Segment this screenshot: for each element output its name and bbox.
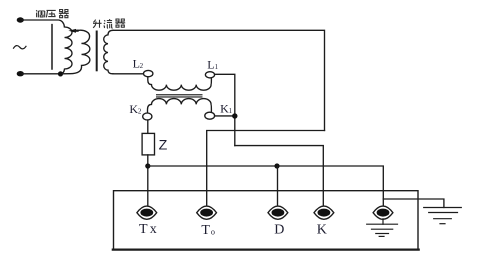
svg-text:Z: Z <box>159 138 168 154</box>
wire J4 down to D terminal <box>277 166 279 206</box>
wire L1 to right bus <box>215 74 235 145</box>
terminal E grounded <box>373 206 393 219</box>
transformer T2 booster secondary winding <box>104 30 113 74</box>
svg-text:D: D <box>274 223 284 238</box>
terminal K <box>314 206 334 219</box>
wire booster secondary bottom to L2 <box>113 73 143 75</box>
svg-text:1: 1 <box>215 63 219 71</box>
wire bottom input <box>22 73 61 75</box>
resistor Z <box>142 133 154 155</box>
terminal T0 <box>197 206 217 219</box>
transformer CT core <box>156 94 203 97</box>
wire J2 down to K terminal (row2) <box>235 146 323 206</box>
svg-text:L: L <box>207 58 214 72</box>
svg-text:T: T <box>201 223 210 238</box>
node J3 Z bottom junction <box>145 163 150 168</box>
wire long bottom bus to ground terminal <box>148 166 383 206</box>
terminal L2 <box>144 70 153 76</box>
AC source terminal bottom <box>17 71 24 76</box>
transformer T2 core <box>96 32 98 71</box>
AC source symbol ~ <box>14 46 27 49</box>
wire top input <box>22 20 64 27</box>
svg-text:1: 1 <box>229 107 233 115</box>
svg-text:o: o <box>211 228 215 237</box>
node J4 D junction <box>274 163 279 168</box>
wire wiper to booster primary <box>75 30 78 32</box>
bridge box <box>114 191 419 250</box>
label 调压器 <box>36 10 69 18</box>
terminal D <box>268 206 288 219</box>
wire Z to bottom junction <box>147 155 149 206</box>
wire K2 down to Z <box>147 120 149 133</box>
transformer T1 variac bar <box>51 25 53 69</box>
node J1 variac bottom junction <box>58 71 63 76</box>
transformer CT primary winding L2-L1 <box>148 77 212 90</box>
transformer T1 variac winding <box>61 27 72 74</box>
wire to external earth <box>383 199 444 208</box>
transformer T2 booster primary winding <box>63 30 90 74</box>
svg-text:T: T <box>139 222 148 237</box>
svg-text:x: x <box>150 222 157 237</box>
transformer CT secondary winding K2-K1 <box>148 99 212 113</box>
AC source terminal top <box>17 17 24 22</box>
svg-text:2: 2 <box>138 107 142 115</box>
ground inside box <box>367 219 398 237</box>
wiper arrow of variac <box>68 29 76 33</box>
svg-text:K: K <box>317 222 327 237</box>
node J2 L1-K1 junction <box>232 113 237 118</box>
wire right drop to T0 (row1) <box>207 131 325 206</box>
svg-text:2: 2 <box>140 62 144 70</box>
terminal Tx <box>137 206 157 219</box>
terminal K1 <box>205 112 215 119</box>
external earth ground <box>424 208 462 224</box>
terminal L1 <box>205 72 214 78</box>
wire K1 to junction <box>215 115 235 117</box>
label 升流器 <box>93 19 125 28</box>
wire booster secondary top to right drop <box>113 30 325 130</box>
terminal K2 <box>143 113 152 120</box>
